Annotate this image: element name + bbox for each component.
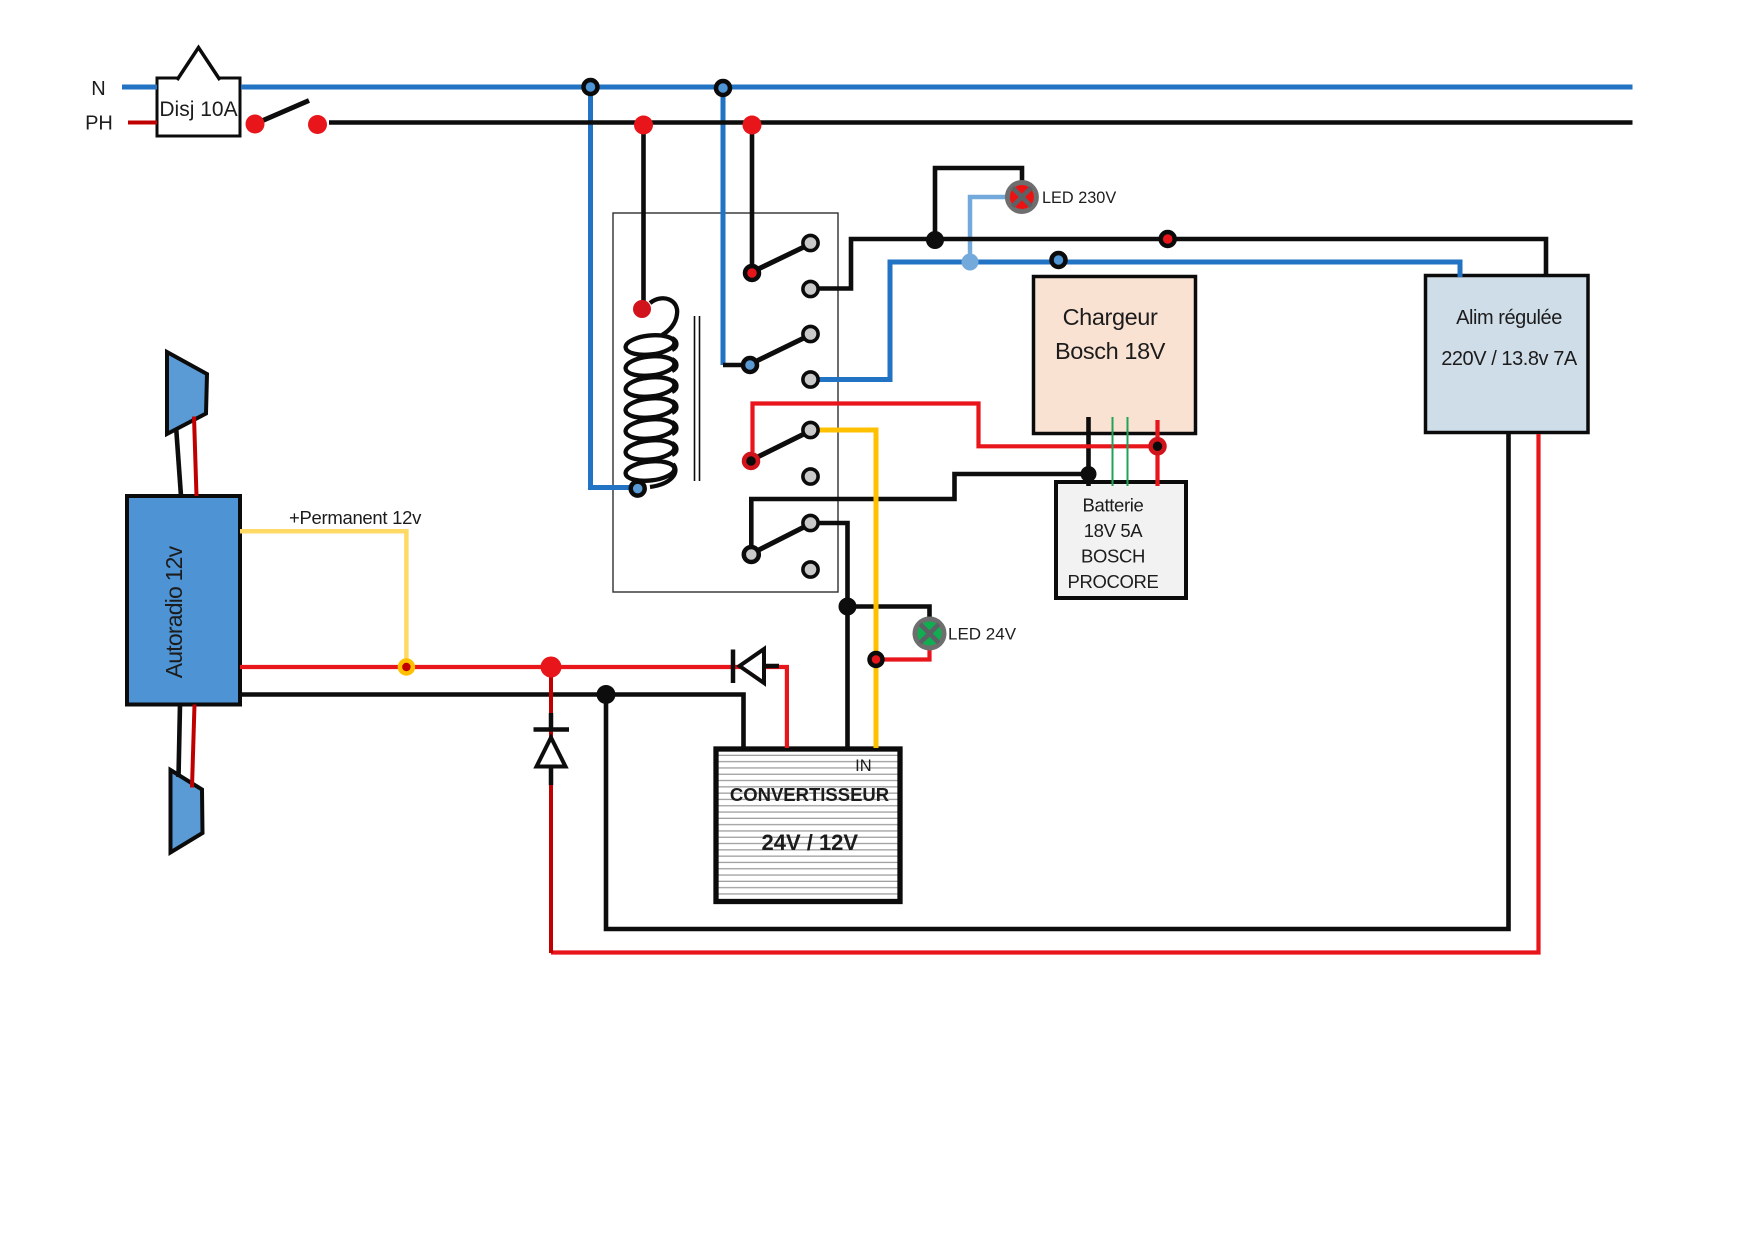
svg-text:LED 24V: LED 24V [948, 625, 1017, 644]
svg-text:Autoradio 12v: Autoradio 12v [161, 545, 187, 678]
svg-text:18V 5A: 18V 5A [1084, 520, 1144, 541]
svg-text:PH: PH [85, 113, 113, 135]
svg-text:24V / 12V: 24V / 12V [761, 830, 858, 855]
svg-text:Batterie: Batterie [1083, 495, 1144, 516]
svg-text:+Permanent 12v: +Permanent 12v [289, 507, 422, 528]
svg-text:Alim régulée: Alim régulée [1456, 307, 1562, 329]
svg-text:PROCORE: PROCORE [1067, 571, 1158, 592]
svg-text:BOSCH: BOSCH [1081, 546, 1145, 567]
svg-text:Bosch 18V: Bosch 18V [1055, 338, 1166, 364]
svg-text:LED 230V: LED 230V [1042, 189, 1116, 207]
svg-text:Disj 10A: Disj 10A [159, 98, 237, 121]
svg-text:220V / 13.8v 7A: 220V / 13.8v 7A [1441, 348, 1578, 370]
svg-text:Chargeur: Chargeur [1063, 304, 1158, 330]
svg-text:N: N [91, 78, 105, 100]
svg-text:CONVERTISSEUR: CONVERTISSEUR [730, 784, 889, 805]
svg-text:IN: IN [855, 757, 872, 775]
